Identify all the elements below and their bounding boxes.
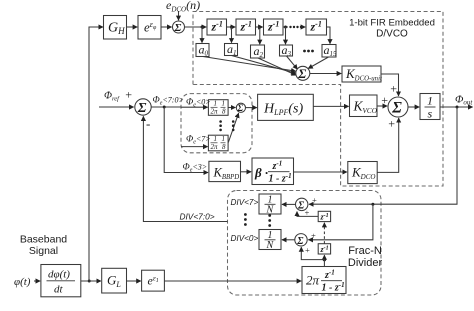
svg-text:1: 1 bbox=[222, 100, 226, 108]
FIR summer S2 bbox=[296, 66, 310, 80]
wire tap down to a1 bbox=[231, 27, 233, 43]
svg-text:DIV<7:0>: DIV<7:0> bbox=[180, 212, 215, 222]
block H_LPF(s) bbox=[258, 94, 314, 120]
wire z4 down to a15 bbox=[327, 27, 331, 44]
wire K_DCO-unit to main summer top bbox=[381, 74, 399, 96]
svg-text:+: + bbox=[381, 93, 389, 107]
delay z^-1 top small bbox=[318, 211, 330, 221]
ellipsis DIV labels bbox=[244, 213, 271, 227]
wire tap down to a3 bbox=[285, 27, 287, 44]
svg-text:+: + bbox=[388, 117, 396, 131]
wire feedback from Phi_out to top divider summer bbox=[309, 107, 457, 204]
svg-text:N: N bbox=[266, 205, 275, 216]
wire K_VCO to main summer bbox=[377, 105, 387, 107]
wire row7 box diagonal to mini summer bbox=[228, 113, 238, 142]
svg-text:8: 8 bbox=[222, 108, 226, 116]
quantizer gain box row0 bbox=[208, 100, 228, 116]
wire S2 to K_DCO-unit bbox=[310, 73, 341, 75]
svg-text:N: N bbox=[266, 240, 275, 251]
wire z3 out to ellipsis bbox=[283, 26, 288, 28]
wire row0 box to mini summer bbox=[228, 107, 235, 109]
node output feedback tap bbox=[456, 106, 459, 109]
svg-text:1: 1 bbox=[222, 135, 226, 143]
svg-text:+: + bbox=[305, 245, 311, 255]
node tap a3 bbox=[284, 26, 287, 29]
wire PD output Phi_e bus bbox=[151, 106, 181, 108]
svg-text:1-bit FIR Embedded: 1-bit FIR Embedded bbox=[349, 18, 435, 29]
block K_VCO bbox=[350, 95, 378, 117]
wire G_H to exp block bbox=[127, 26, 138, 28]
coefficient a15 bbox=[322, 45, 336, 58]
summer S1 (DCO noise adder) bbox=[173, 21, 185, 33]
wire Phi_e<7> row bbox=[181, 146, 208, 148]
svg-text:+: + bbox=[390, 82, 398, 96]
wire 2pi accumulator output bbox=[323, 260, 325, 267]
svg-text:2π: 2π bbox=[306, 273, 320, 288]
delay z^-1 no.1 bbox=[207, 19, 227, 35]
dashed box phase quantizer bank bbox=[181, 94, 252, 153]
svg-text:+: + bbox=[125, 88, 133, 102]
dashed box Frac-N Divider bbox=[228, 191, 382, 296]
coefficient a1 bbox=[225, 44, 238, 56]
svg-text:8: 8 bbox=[222, 143, 226, 151]
dashed box 1-bit FIR Embedded D/VCO (L-shape) bbox=[193, 12, 443, 187]
node tap a0 bbox=[201, 26, 204, 29]
wire S1 to delay chain bbox=[185, 26, 207, 28]
svg-text:1: 1 bbox=[214, 135, 218, 143]
wire derivative to G_L bbox=[81, 280, 101, 282]
ellipsis coefficients bbox=[303, 50, 314, 53]
divider 1/N top bbox=[259, 194, 281, 214]
wire a3 to FIR summer bbox=[287, 56, 298, 69]
svg-text:Σ: Σ bbox=[174, 22, 182, 34]
wire a2 to FIR summer bbox=[258, 58, 296, 75]
wire K_DCO up to main summer bottom bbox=[377, 118, 399, 172]
wire S3 to integrator bbox=[408, 106, 419, 108]
svg-text:Φe<7>: Φe<7> bbox=[186, 135, 211, 146]
mini summer S7 bbox=[236, 103, 245, 112]
svg-text:2π: 2π bbox=[211, 143, 219, 151]
node accumulator branch bbox=[323, 258, 326, 261]
svg-text:Σ: Σ bbox=[296, 236, 304, 247]
svg-text:Frac-N: Frac-N bbox=[348, 245, 382, 257]
svg-text:Σ: Σ bbox=[391, 100, 402, 117]
wire accumulator branch to bottom summer S5 bbox=[301, 247, 324, 259]
summer S4 divider top bbox=[296, 198, 308, 210]
svg-text:Φe<7:0>: Φe<7:0> bbox=[153, 96, 184, 107]
svg-text:D/VCO: D/VCO bbox=[376, 29, 408, 40]
svg-text:β ·: β · bbox=[254, 165, 268, 180]
wire baseband tap up to G_H bbox=[89, 27, 103, 281]
svg-text:Φout: Φout bbox=[455, 94, 473, 107]
svg-text:+: + bbox=[304, 208, 310, 218]
wire mini summer to H_LPF bbox=[246, 107, 257, 109]
svg-text:Σ: Σ bbox=[137, 101, 147, 116]
divider 1/N bottom bbox=[259, 230, 281, 250]
block 1/s integrator bbox=[420, 94, 440, 120]
wire H_LPF to K_VCO bbox=[313, 105, 348, 107]
svg-text:Φe<3>: Φe<3> bbox=[183, 163, 208, 174]
label quantizer row0 fractions bbox=[211, 100, 227, 116]
block K_DCO-unit bbox=[342, 66, 381, 82]
node baseband branch bbox=[88, 280, 91, 283]
summer S6 phase detector bbox=[135, 99, 151, 115]
wire K_BBPD to beta accumulator bbox=[241, 171, 252, 173]
wire ellipsis to z4 bbox=[302, 26, 305, 28]
wire Phi_ref input bbox=[99, 106, 134, 108]
delay z^-1 no.3 bbox=[264, 19, 284, 35]
label quantizer row7 fractions bbox=[211, 135, 227, 151]
wire Phi_e<0> row bbox=[181, 106, 208, 108]
node Phi_e branch bbox=[163, 106, 166, 109]
svg-text:Signal: Signal bbox=[29, 245, 58, 257]
coefficient a3 bbox=[280, 45, 293, 56]
svg-text:dt: dt bbox=[54, 284, 64, 296]
wire a0 to FIR summer bbox=[203, 57, 296, 72]
coefficient a2 bbox=[251, 45, 265, 58]
wire Phi_e<3> branch to K_BBPD bbox=[164, 107, 208, 173]
wire dashed between small delays bbox=[323, 223, 325, 244]
delay z^-1 bottom small bbox=[318, 244, 330, 254]
wire top summer to 1/N top bbox=[282, 203, 296, 205]
block K_BBPD bbox=[209, 161, 241, 181]
wire z1 to z2 bbox=[227, 26, 236, 28]
coefficient a0 bbox=[196, 44, 209, 57]
wire exp(eps1) to 2pi accumulator bbox=[164, 280, 301, 282]
wire G_L to exp(eps1) bbox=[127, 280, 141, 282]
wire phi(t) input bbox=[34, 280, 40, 282]
wire beta accumulator to K_DCO bbox=[294, 171, 347, 173]
wire accumulator output up into bottom small delay bbox=[323, 255, 325, 259]
wire exp block to summer S1 bbox=[161, 26, 172, 28]
svg-text:Σ: Σ bbox=[237, 103, 244, 113]
svg-text:dφ(t): dφ(t) bbox=[48, 269, 70, 281]
svg-text:Σ: Σ bbox=[297, 66, 306, 81]
ellipsis quantizer rows bbox=[219, 120, 234, 131]
svg-text:φ(t): φ(t) bbox=[14, 276, 31, 288]
summer S5 divider bottom bbox=[295, 234, 307, 246]
wire z2 to z3 bbox=[256, 26, 263, 28]
svg-text:DIV<7>: DIV<7> bbox=[231, 198, 259, 207]
ellipsis delay chain bbox=[289, 26, 302, 28]
delay z^-1 no.2 bbox=[236, 19, 256, 35]
node tap a1 bbox=[230, 26, 233, 29]
wire PD minus input from divider bus bbox=[143, 116, 227, 221]
block G_H bbox=[104, 16, 127, 40]
block beta accumulator bbox=[252, 158, 294, 185]
svg-text:1: 1 bbox=[427, 94, 433, 108]
svg-text:Φref: Φref bbox=[104, 91, 120, 103]
block 2pi accumulator bbox=[302, 267, 346, 294]
wire tap down to a2 bbox=[259, 27, 261, 44]
wire feedback branch to bottom divider summer bbox=[308, 204, 373, 240]
block exp(eps_phi) bbox=[138, 16, 161, 40]
quantizer gain box row7 bbox=[208, 135, 228, 151]
node tap a2 bbox=[258, 26, 261, 29]
summer S3 (oscillator phase adder) bbox=[388, 97, 408, 117]
wire a15 to FIR summer bbox=[308, 57, 328, 69]
svg-text:-: - bbox=[146, 116, 150, 131]
svg-text:+: + bbox=[311, 231, 317, 241]
svg-text:DIV<0>: DIV<0> bbox=[231, 234, 259, 243]
svg-text:+: + bbox=[312, 195, 318, 205]
delay z^-1 no.4 bbox=[306, 19, 327, 35]
svg-text:1: 1 bbox=[214, 100, 218, 108]
block G_L bbox=[102, 268, 127, 293]
block derivative dphi/dt bbox=[41, 265, 81, 297]
svg-text:Divider: Divider bbox=[348, 257, 383, 269]
wire top small delay to summer S4 bbox=[297, 212, 318, 217]
wire tap down to a0 bbox=[201, 27, 203, 43]
wire integrator to output Phi_out bbox=[440, 106, 473, 108]
svg-text:2π: 2π bbox=[211, 108, 219, 116]
svg-text:s: s bbox=[428, 107, 433, 121]
node feedback branch bbox=[371, 203, 374, 206]
svg-text:eDCO(n): eDCO(n) bbox=[166, 0, 200, 14]
block K_DCO bbox=[348, 162, 377, 184]
wire e_DCO(n) into summer S1 bbox=[178, 11, 180, 20]
svg-text:Baseband: Baseband bbox=[20, 234, 67, 246]
wire bottom summer to 1/N bottom bbox=[282, 239, 295, 241]
wire a1 to FIR summer bbox=[232, 56, 296, 74]
block exp(eps1) bbox=[142, 270, 165, 291]
